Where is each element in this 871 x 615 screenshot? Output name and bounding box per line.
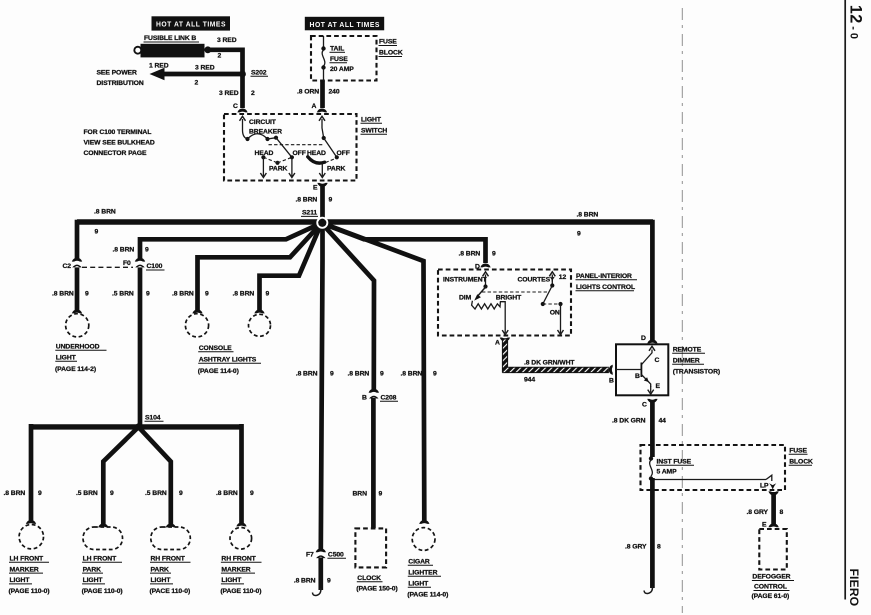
- svg-text:9: 9: [327, 578, 331, 585]
- svg-text:BLOCK: BLOCK: [379, 50, 403, 57]
- svg-text:LIGHT: LIGHT: [361, 117, 382, 124]
- svg-text:CONNECTOR PAGE: CONNECTOR PAGE: [84, 150, 147, 157]
- svg-text:S104: S104: [145, 415, 161, 422]
- svg-text:RH FRONT: RH FRONT: [221, 556, 256, 563]
- svg-text:9: 9: [492, 251, 496, 258]
- svg-text:SWITCH: SWITCH: [361, 128, 387, 135]
- svg-text:(PAGE 114-2): (PAGE 114-2): [55, 366, 96, 373]
- svg-text:.8 BRN: .8 BRN: [296, 197, 318, 204]
- svg-text:.8 DK GRN/WHT: .8 DK GRN/WHT: [524, 360, 575, 367]
- svg-text:9: 9: [38, 490, 42, 497]
- svg-text:240: 240: [329, 89, 340, 96]
- svg-text:9: 9: [95, 229, 99, 236]
- svg-text:COURTESY: COURTESY: [518, 277, 556, 284]
- svg-text:MARKER: MARKER: [221, 566, 250, 573]
- svg-text:C100: C100: [147, 263, 163, 270]
- svg-text:UNDERHOOD: UNDERHOOD: [56, 344, 100, 351]
- svg-text:B: B: [362, 395, 367, 402]
- svg-text:LIGHT: LIGHT: [408, 581, 429, 588]
- svg-text:E: E: [762, 522, 767, 529]
- svg-text:BLOCK: BLOCK: [789, 459, 813, 466]
- svg-text:PANEL-INTERIOR: PANEL-INTERIOR: [576, 273, 632, 280]
- svg-text:9: 9: [145, 247, 149, 254]
- svg-text:A: A: [312, 103, 317, 110]
- svg-text:LP: LP: [760, 483, 769, 490]
- svg-text:(PAGE 110-0): (PAGE 110-0): [82, 588, 123, 595]
- svg-text:INSTRUMENT: INSTRUMENT: [443, 277, 488, 284]
- svg-text:.8 BRN: .8 BRN: [216, 490, 238, 497]
- svg-text:(TRANSISTOR): (TRANSISTOR): [673, 369, 720, 376]
- svg-text:LH FRONT: LH FRONT: [10, 556, 45, 563]
- svg-text:F0: F0: [123, 260, 131, 267]
- svg-text:ON: ON: [550, 310, 560, 317]
- svg-text:(PAGE 114-0): (PAGE 114-0): [198, 368, 239, 375]
- svg-text:9: 9: [329, 197, 333, 204]
- svg-text:D: D: [641, 335, 646, 342]
- svg-text:.8 GRY: .8 GRY: [625, 544, 647, 551]
- svg-text:9: 9: [205, 291, 209, 298]
- svg-text:RH FRONT: RH FRONT: [151, 556, 186, 563]
- svg-text:.8 ORN: .8 ORN: [297, 89, 319, 96]
- svg-text:A: A: [495, 340, 500, 347]
- svg-text:DISTRIBUTION: DISTRIBUTION: [97, 80, 144, 87]
- svg-text:CLOCK: CLOCK: [357, 575, 381, 582]
- svg-text:8: 8: [780, 509, 784, 516]
- svg-text:ASHTRAY LIGHTS: ASHTRAY LIGHTS: [199, 357, 257, 364]
- svg-text:C208: C208: [381, 395, 397, 402]
- svg-text:SEE POWER: SEE POWER: [97, 70, 137, 77]
- svg-text:- 0: - 0: [848, 26, 860, 39]
- svg-text:E: E: [656, 383, 661, 390]
- svg-text:3 RED: 3 RED: [219, 90, 239, 97]
- svg-text:.8 BRN: .8 BRN: [113, 247, 135, 254]
- svg-text:LIGHT: LIGHT: [221, 577, 242, 584]
- svg-text:CONTROL: CONTROL: [754, 584, 787, 591]
- svg-text:.8 BRN: .8 BRN: [4, 490, 26, 497]
- svg-text:.8 BRN: .8 BRN: [577, 212, 599, 219]
- svg-text:PARK: PARK: [151, 566, 170, 573]
- svg-text:9: 9: [266, 291, 270, 298]
- svg-text:TAIL: TAIL: [330, 46, 344, 53]
- svg-text:PARK: PARK: [327, 166, 346, 173]
- svg-text:LIGHT: LIGHT: [151, 577, 172, 584]
- svg-text:8: 8: [657, 544, 661, 551]
- svg-text:DIM: DIM: [459, 295, 472, 302]
- svg-text:B: B: [609, 378, 614, 385]
- svg-text:REMOTE: REMOTE: [673, 347, 702, 354]
- svg-text:FIERO: FIERO: [847, 569, 861, 607]
- svg-text:HEAD: HEAD: [307, 150, 326, 157]
- svg-text:9: 9: [250, 490, 254, 497]
- svg-text:12: 12: [846, 5, 864, 24]
- svg-text:.5 BRN: .5 BRN: [145, 490, 167, 497]
- svg-text:20 AMP: 20 AMP: [330, 66, 354, 73]
- svg-text:LIGHTS CONTROL: LIGHTS CONTROL: [576, 284, 635, 291]
- svg-text:.8 BRN: .8 BRN: [94, 209, 116, 216]
- svg-text:VIEW SEE BULKHEAD: VIEW SEE BULKHEAD: [84, 140, 155, 147]
- svg-text:(PACE 110-0): (PACE 110-0): [150, 588, 191, 595]
- svg-text:MARKER: MARKER: [10, 566, 39, 573]
- svg-text:2: 2: [251, 90, 255, 97]
- svg-text:BRN: BRN: [353, 491, 368, 498]
- svg-text:3 RED: 3 RED: [217, 37, 237, 44]
- svg-text:FUSE: FUSE: [330, 56, 348, 63]
- svg-text:9: 9: [110, 490, 114, 497]
- svg-text:(PAGE 150-0): (PAGE 150-0): [356, 586, 397, 593]
- svg-text:.8 BRN: .8 BRN: [52, 291, 74, 298]
- svg-text:(PAGE 110-0): (PAGE 110-0): [220, 588, 261, 595]
- svg-text:9: 9: [146, 291, 150, 298]
- svg-text:F7: F7: [306, 552, 314, 559]
- svg-text:.8 BRN: .8 BRN: [459, 251, 481, 258]
- svg-text:9: 9: [577, 231, 581, 238]
- svg-text:9: 9: [179, 490, 183, 497]
- svg-text:DIMMER: DIMMER: [673, 358, 700, 365]
- svg-text:OFF: OFF: [337, 150, 350, 157]
- svg-text:FUSE: FUSE: [789, 448, 807, 455]
- svg-text:.8 BRN: .8 BRN: [233, 291, 255, 298]
- svg-text:FUSE: FUSE: [379, 39, 397, 46]
- svg-text:FOR C100 TERMINAL: FOR C100 TERMINAL: [84, 129, 152, 136]
- svg-text:C: C: [642, 402, 647, 409]
- svg-text:S202: S202: [251, 70, 267, 77]
- svg-text:9: 9: [380, 371, 384, 378]
- svg-text:OFF: OFF: [293, 150, 306, 157]
- svg-text:HOT AT ALL TIMES: HOT AT ALL TIMES: [310, 20, 381, 29]
- svg-text:(PAGE 114-0): (PAGE 114-0): [407, 592, 448, 599]
- svg-text:2: 2: [195, 80, 199, 87]
- svg-text:9: 9: [433, 371, 437, 378]
- svg-text:.8 BRN: .8 BRN: [296, 371, 318, 378]
- svg-text:B: B: [635, 373, 640, 380]
- svg-text:.5 BRN: .5 BRN: [112, 291, 134, 298]
- svg-text:S211: S211: [302, 210, 317, 217]
- svg-text:.8 BRN: .8 BRN: [401, 371, 423, 378]
- svg-text:CIGAR: CIGAR: [408, 559, 430, 566]
- svg-text:DEFOGGER: DEFOGGER: [752, 574, 790, 581]
- svg-text:LIGHTER: LIGHTER: [408, 570, 437, 577]
- svg-text:C500: C500: [328, 552, 344, 559]
- svg-text:9: 9: [85, 291, 89, 298]
- svg-text:CIRCUIT: CIRCUIT: [249, 119, 277, 126]
- svg-text:.8 BRN: .8 BRN: [294, 578, 316, 585]
- svg-text:(PAGE 110-0): (PAGE 110-0): [9, 588, 50, 595]
- svg-text:944: 944: [524, 377, 535, 384]
- svg-text:2: 2: [218, 53, 222, 60]
- svg-text:INST FUSE: INST FUSE: [657, 459, 692, 466]
- svg-text:.8 DK GRN: .8 DK GRN: [612, 418, 646, 425]
- svg-text:44: 44: [659, 418, 667, 425]
- svg-text:E: E: [313, 185, 318, 192]
- svg-text:1 RED: 1 RED: [149, 63, 169, 70]
- svg-text:.5 BRN: .5 BRN: [76, 490, 98, 497]
- svg-text:(PAGE 61-0): (PAGE 61-0): [752, 593, 790, 600]
- svg-text:12: 12: [559, 274, 567, 281]
- svg-text:9: 9: [330, 371, 334, 378]
- svg-text:5 AMP: 5 AMP: [657, 469, 678, 476]
- svg-text:C: C: [655, 357, 660, 364]
- svg-text:C: C: [233, 103, 238, 110]
- svg-text:LIGHT: LIGHT: [83, 577, 104, 584]
- svg-text:LH FRONT: LH FRONT: [83, 556, 118, 563]
- svg-text:3 RED: 3 RED: [195, 65, 215, 72]
- svg-text:C2: C2: [63, 263, 72, 270]
- svg-text:FUSIBLE LINK B: FUSIBLE LINK B: [144, 35, 196, 42]
- svg-text:.8 GRY: .8 GRY: [747, 509, 769, 516]
- svg-text:.8 BRN: .8 BRN: [348, 371, 370, 378]
- svg-text:CONSOLE: CONSOLE: [199, 345, 232, 352]
- svg-text:LIGHT: LIGHT: [10, 577, 31, 584]
- svg-text:.8 BRN: .8 BRN: [172, 291, 194, 298]
- svg-text:HOT AT ALL TIMES: HOT AT ALL TIMES: [156, 20, 226, 29]
- svg-text:PARK: PARK: [269, 166, 288, 173]
- svg-text:PARK: PARK: [83, 566, 102, 573]
- svg-text:BRIGHT: BRIGHT: [496, 295, 522, 302]
- svg-text:LIGHT: LIGHT: [56, 355, 77, 362]
- svg-text:9: 9: [379, 491, 383, 498]
